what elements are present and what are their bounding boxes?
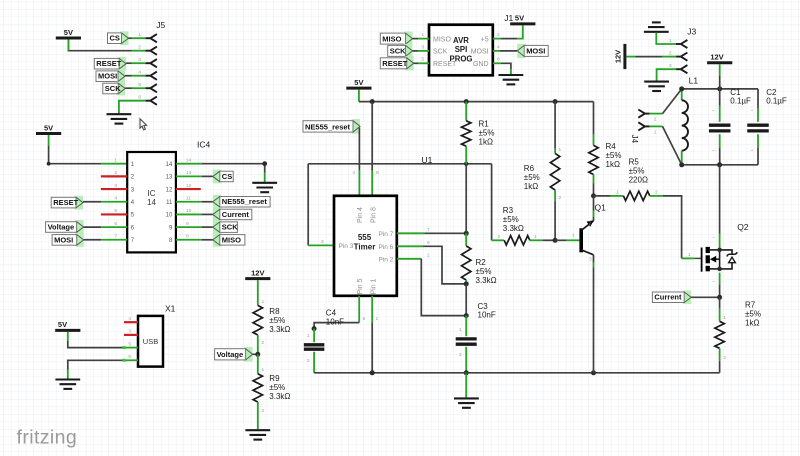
svg-text:2: 2 — [654, 117, 657, 123]
net label SCK @AVR — [388, 44, 413, 58]
svg-text:J5: J5 — [156, 20, 165, 30]
ground (J3 pin1) — [644, 22, 669, 31]
svg-text:C4: C4 — [326, 309, 337, 318]
svg-text:2: 2 — [669, 50, 672, 56]
svg-text:1: 1 — [688, 252, 691, 258]
svg-text:R5: R5 — [629, 158, 640, 167]
IC4 pin1 lead — [101, 163, 127, 165]
svg-text:Pin 6: Pin 6 — [378, 244, 393, 251]
junction Q2 drain / C1 bottom — [717, 162, 722, 167]
svg-text:5: 5 — [421, 57, 424, 63]
svg-text:0.1µF: 0.1µF — [730, 97, 751, 106]
svg-text:R4: R4 — [606, 142, 617, 151]
svg-text:11: 11 — [166, 200, 173, 206]
J5 pin1 lead — [132, 37, 146, 39]
svg-text:fritzing: fritzing — [17, 427, 78, 449]
555 pin name labels — [339, 207, 394, 295]
svg-text:SCK: SCK — [390, 47, 406, 56]
svg-text:6: 6 — [114, 221, 117, 227]
wire 12V to top rail — [719, 64, 721, 76]
power 5V (555) — [346, 78, 371, 88]
IC4 pin7 lead — [101, 239, 127, 241]
svg-text:1: 1 — [262, 367, 265, 373]
wire R1 bottom to junction — [465, 164, 467, 234]
svg-text:1: 1 — [559, 147, 562, 153]
svg-text:12: 12 — [166, 187, 173, 193]
power 5V (IC4) — [36, 123, 61, 133]
svg-text:R1: R1 — [479, 119, 490, 128]
svg-text:3: 3 — [589, 257, 592, 263]
svg-text:SCK: SCK — [105, 84, 121, 93]
J5 pin3 lead — [132, 62, 146, 64]
svg-text:2: 2 — [138, 45, 141, 51]
svg-text:7: 7 — [114, 234, 117, 240]
svg-text:10nF: 10nF — [326, 318, 344, 327]
svg-text:C1: C1 — [730, 88, 741, 97]
junction Q1 / GND rail — [591, 370, 596, 375]
svg-text:5V: 5V — [354, 78, 363, 87]
svg-text:1: 1 — [654, 129, 657, 135]
svg-text:Pin 1: Pin 1 — [371, 278, 378, 294]
AVR pin3 lead — [418, 50, 429, 52]
svg-text:NE555_reset: NE555_reset — [222, 197, 268, 206]
svg-text:14: 14 — [147, 198, 156, 207]
svg-text:R3: R3 — [503, 206, 514, 215]
svg-text:3: 3 — [421, 44, 424, 50]
svg-text:1: 1 — [138, 32, 141, 38]
power 12V (J3) rotated — [614, 44, 625, 69]
junction +5V rail / 555 pin8 — [370, 99, 375, 104]
capacitor C1 — [709, 89, 731, 165]
junction U1 wire / R1 bottom — [464, 162, 468, 166]
junction Current / R7 — [717, 295, 722, 300]
wire SCK to J5 pin5 — [125, 87, 131, 89]
svg-text:C2: C2 — [766, 88, 777, 97]
555 pin6 lead — [397, 245, 423, 247]
svg-text:SPI: SPI — [455, 45, 468, 54]
svg-text:Current: Current — [222, 210, 250, 219]
junction 12V / C1 top — [717, 86, 722, 91]
resistor R2 — [462, 233, 471, 284]
svg-text:SCK: SCK — [222, 223, 238, 232]
svg-text:U1: U1 — [422, 155, 433, 165]
svg-text:3: 3 — [138, 57, 141, 63]
net label MISO @AVR — [380, 32, 412, 46]
svg-text:1: 1 — [534, 234, 537, 240]
svg-text:6: 6 — [138, 95, 141, 101]
junction L1 bottom — [679, 162, 684, 167]
X1 pin numbers — [128, 316, 131, 360]
svg-text:MISO: MISO — [222, 235, 241, 244]
power 5V (J1) — [510, 14, 535, 24]
svg-text:J4: J4 — [630, 135, 639, 144]
svg-text:2: 2 — [497, 234, 500, 240]
AVR pin names — [433, 36, 489, 68]
svg-text:MISO: MISO — [382, 34, 401, 43]
net label CS @IC4 pin13 — [213, 170, 233, 184]
ground stem (C3) — [465, 373, 467, 398]
wire NE555_reset to 555 pin4 — [358, 128, 360, 171]
AVR pin1 lead — [418, 38, 429, 40]
svg-text:R8: R8 — [269, 307, 280, 316]
net label SCK @IC4 pin9 — [213, 220, 238, 234]
svg-text:1kΩ: 1kΩ — [745, 319, 759, 328]
junction R1/R2/pin7 — [464, 231, 469, 236]
IC4 pin3 red stub (unrouted) — [101, 188, 127, 190]
svg-text:±5%: ±5% — [606, 151, 622, 160]
wire R5 to Q2 gate — [663, 196, 682, 259]
svg-text:10: 10 — [186, 208, 192, 214]
power 12V (R8) — [245, 268, 270, 278]
J4 pin1 lead — [650, 125, 663, 127]
wire L1 bottom rail — [682, 164, 758, 166]
wire J3 pin1 to ground — [656, 33, 676, 44]
svg-text:3.3kΩ: 3.3kΩ — [476, 276, 497, 285]
wire 12V to J3 pin2 — [636, 56, 663, 58]
wire 555 pin2 to C3 top — [421, 259, 466, 316]
svg-text:2: 2 — [262, 340, 265, 346]
svg-text:3.3kΩ: 3.3kΩ — [503, 224, 524, 233]
junction R6 / R3 / Q1 base — [553, 238, 558, 243]
svg-text:1: 1 — [616, 190, 619, 196]
junction C3 top — [464, 313, 469, 318]
J5 pin 1 — [146, 34, 157, 42]
wire 5V to X1 pin5 — [67, 332, 69, 341]
svg-text:±5%: ±5% — [745, 310, 761, 319]
Q2 source junction dot — [717, 267, 722, 272]
svg-text:±5%: ±5% — [269, 316, 285, 325]
svg-text:CS: CS — [222, 172, 232, 181]
svg-text:5V: 5V — [64, 28, 73, 37]
AVR pin numbers — [421, 32, 500, 63]
svg-text:12V: 12V — [614, 50, 623, 63]
junction +5V rail / R6 — [553, 99, 558, 104]
resistor R7 — [715, 297, 724, 373]
wire U1 to 555 pin3 — [307, 164, 309, 246]
wire MOSI to J5 pin4 — [125, 75, 132, 77]
junction C4 top — [312, 326, 317, 331]
J5 pin 6 — [146, 97, 157, 105]
wire SCK to AVR pin3 — [413, 50, 419, 52]
svg-text:NE555_reset: NE555_reset — [305, 122, 351, 131]
junction R2 bottom / pin6 / C3 — [464, 281, 469, 286]
svg-text:Pin 7: Pin 7 — [378, 231, 393, 238]
12V lead to J3 pin2 — [626, 56, 635, 58]
svg-text:~: ~ — [750, 109, 753, 114]
svg-text:2: 2 — [307, 358, 310, 364]
svg-text:5: 5 — [363, 316, 366, 322]
IC4 pin5 red stub (unrouted) — [101, 213, 127, 215]
555 pin7 lead — [397, 232, 425, 234]
svg-text:9: 9 — [186, 221, 189, 227]
svg-text:8: 8 — [186, 234, 189, 240]
svg-text:USB: USB — [143, 337, 158, 346]
net label Voltage @IC4 pin6 — [46, 220, 84, 234]
svg-text:Q1: Q1 — [595, 203, 607, 213]
svg-text:Pin 8: Pin 8 — [371, 207, 378, 223]
wire RESET to IC4 pin4 — [83, 201, 101, 203]
net label MOSI @AVR right — [517, 44, 548, 58]
svg-text:±5%: ±5% — [503, 215, 519, 224]
wire IC4 pin11 to NE555_reset — [202, 201, 213, 203]
net label RESET @IC4 pin4 — [51, 196, 83, 210]
wire J3 pin3 to ground — [657, 69, 677, 80]
svg-text:AVR: AVR — [453, 36, 469, 45]
555 timer U1 body — [334, 196, 397, 296]
J4 pin 1 — [638, 122, 649, 130]
555 pin8 lead — [371, 170, 373, 196]
svg-text:L1: L1 — [689, 76, 699, 86]
svg-text:RESET: RESET — [382, 59, 407, 68]
svg-text:12V: 12V — [710, 53, 723, 62]
wire X1 pin6 to ground — [68, 360, 124, 369]
J3 pin 2 — [676, 53, 687, 61]
junction pin1 / GND rail — [370, 370, 375, 375]
Q2 gate lead — [682, 257, 695, 259]
capacitor C4 — [304, 329, 325, 373]
ground (IC4 pin14) — [252, 183, 277, 192]
J4 pin2 lead — [650, 113, 663, 115]
svg-text:R7: R7 — [745, 301, 756, 310]
svg-text:5V: 5V — [58, 320, 67, 329]
svg-text:1: 1 — [572, 233, 575, 239]
svg-text:Pin 2: Pin 2 — [378, 256, 393, 263]
wire junction to Q1 base — [555, 239, 566, 241]
J5 pin 5 — [146, 84, 157, 92]
svg-text:+5: +5 — [481, 36, 489, 43]
net label MOSI @IC4 pin7 — [52, 233, 84, 247]
svg-text:Q2: Q2 — [737, 222, 749, 232]
IC4 outer pin numbers — [114, 158, 191, 240]
svg-text:RESET: RESET — [53, 198, 78, 207]
svg-text:3: 3 — [669, 63, 672, 69]
svg-text:R9: R9 — [269, 374, 280, 383]
svg-text:13: 13 — [166, 175, 173, 181]
wire 5V to IC4 pin1 — [48, 135, 50, 146]
svg-text:10nF: 10nF — [478, 311, 496, 320]
svg-text:555: 555 — [358, 233, 372, 242]
transistor Q1 — [572, 196, 594, 268]
resistor R1 — [462, 102, 471, 164]
J5 pin2 lead — [132, 50, 146, 52]
wire R2 bottom to C3 top — [465, 284, 467, 316]
wire Current to node — [691, 296, 719, 298]
svg-text:R6: R6 — [524, 164, 535, 173]
Q1 base lead — [566, 239, 580, 241]
net label Current @Q2 — [652, 290, 691, 304]
svg-text:11: 11 — [186, 196, 191, 202]
mouse cursor — [140, 119, 147, 130]
wire node U1 (pin3/R3/R1) — [308, 163, 491, 165]
svg-text:14: 14 — [166, 162, 173, 168]
ground (bottom rail) — [454, 398, 479, 407]
svg-text:~: ~ — [712, 280, 715, 285]
svg-text:Pin 3: Pin 3 — [339, 243, 354, 250]
wire GND bottom rail — [314, 372, 719, 374]
svg-text:Voltage: Voltage — [48, 223, 75, 232]
wire AVR +5 to 5V — [501, 38, 517, 40]
net label MOSI @J5 — [96, 69, 125, 83]
junction R4 / R5 / Q1 — [591, 193, 596, 198]
wire CS to J5 pin1 — [129, 37, 132, 39]
junction L1 top — [679, 86, 684, 91]
wire AVR MOSI to label — [500, 50, 517, 52]
svg-text:SCK: SCK — [433, 49, 448, 56]
svg-text:1: 1 — [376, 316, 379, 322]
resistor R9 — [253, 354, 262, 429]
IC4 pin13 lead — [176, 175, 202, 177]
connector X1 USB body — [138, 316, 163, 367]
net label MISO @IC4 pin8 — [213, 233, 245, 247]
net label RESET @AVR — [380, 56, 413, 70]
svg-text:Pin 5: Pin 5 — [357, 278, 364, 294]
J3 pin 1 — [676, 40, 687, 48]
svg-text:MOSI: MOSI — [54, 235, 73, 244]
svg-text:13: 13 — [186, 170, 192, 176]
svg-text:Voltage: Voltage — [217, 350, 244, 359]
wire 5V to +5V rail — [358, 90, 360, 102]
svg-text:1: 1 — [669, 38, 672, 44]
J5 pin 3 — [146, 59, 157, 67]
X1 pin4 red stub (unrouted) — [124, 321, 138, 323]
wire 555 pin7 to R2 top — [425, 232, 467, 234]
svg-text:~: ~ — [712, 109, 715, 114]
svg-text:1: 1 — [262, 299, 265, 305]
wire Voltage to divider — [253, 353, 258, 355]
svg-text:RESET: RESET — [96, 59, 121, 68]
svg-text:5V: 5V — [515, 14, 524, 23]
net label NE555_reset @555 — [303, 119, 360, 134]
svg-text:MOSI: MOSI — [98, 72, 117, 81]
wire IC4 pin9 to SCK — [202, 226, 213, 228]
svg-text:±5%: ±5% — [524, 173, 540, 182]
X1 pin3 red stub (unrouted) — [124, 334, 138, 336]
svg-text:±5%: ±5% — [629, 167, 645, 176]
svg-text:J1: J1 — [504, 13, 513, 23]
wire 555 pin5 to C4 — [314, 323, 359, 329]
IC4 pin11 lead — [176, 201, 202, 203]
svg-text:~: ~ — [750, 149, 753, 154]
ground stem (X1) — [67, 370, 69, 379]
resistor R3 — [492, 236, 555, 245]
wire Q1 collector to GND rail — [593, 268, 595, 373]
resistor R5 — [594, 191, 663, 200]
power 5V (top-left) — [56, 28, 81, 38]
ground stem (IC4 pin14) — [264, 173, 266, 183]
svg-text:6: 6 — [128, 354, 131, 360]
svg-text:RESET: RESET — [433, 61, 457, 68]
wire AVR GND to ground — [501, 63, 511, 69]
IC4 pin10 lead — [176, 213, 202, 215]
5V lead to wire — [517, 25, 523, 38]
svg-text:1: 1 — [114, 158, 117, 164]
Q2 drain junction dot — [717, 248, 722, 253]
wire Q2 source to Current node — [719, 284, 721, 297]
Q2 source lead — [719, 273, 721, 285]
J3 pin 3 — [676, 65, 687, 73]
svg-text:Timer: Timer — [354, 242, 376, 251]
ground stem (AVR) — [510, 69, 512, 74]
555 pin1 lead — [371, 296, 373, 323]
wire +5V rail — [359, 101, 594, 103]
svg-text:C3: C3 — [478, 302, 489, 311]
Q2 drain lead — [719, 234, 721, 250]
svg-text:MISO: MISO — [433, 36, 451, 43]
wire L1 top rail — [682, 88, 758, 90]
555 pin2 lead — [397, 258, 422, 260]
555 pin5 lead — [358, 296, 360, 323]
IC4 pin9 lead — [176, 226, 202, 228]
svg-text:2: 2 — [262, 408, 265, 414]
wire 555 pin1 to GND rail — [371, 323, 373, 373]
ground (X1) — [55, 380, 80, 389]
svg-text:3.3kΩ: 3.3kΩ — [269, 325, 290, 334]
svg-text:J3: J3 — [687, 27, 696, 37]
svg-text:MOSI: MOSI — [526, 47, 545, 56]
AVR pin6 lead — [493, 62, 501, 64]
svg-text:GND: GND — [473, 61, 489, 68]
svg-text:~: ~ — [712, 236, 715, 241]
J5 pin 4 — [146, 72, 157, 80]
wire +5V rail to 555 pin8 — [371, 102, 373, 170]
net label CS @J5 — [108, 31, 129, 45]
svg-text:4: 4 — [114, 196, 117, 202]
wire IC4 pin13 to CS — [202, 175, 213, 177]
svg-text:Current: Current — [654, 293, 682, 302]
wire C1 junction to Q2 drain — [719, 165, 721, 234]
transistor Q2 (MOSFET) — [702, 247, 738, 272]
ground (J5 pin6) — [107, 114, 132, 123]
IC IC4 body — [127, 152, 176, 252]
wire IC4 pin8 to MISO — [202, 239, 213, 241]
J5 pin4 lead — [132, 75, 146, 77]
svg-text:R2: R2 — [476, 258, 487, 267]
J4 pin 2 — [638, 110, 649, 118]
wire 555 pin6 to R2 bottom — [423, 246, 466, 284]
svg-text:1kΩ: 1kΩ — [524, 182, 538, 191]
svg-text:1: 1 — [421, 32, 424, 38]
svg-text:2: 2 — [559, 195, 562, 201]
ground (AVR GND) — [499, 75, 524, 84]
svg-text:2: 2 — [723, 355, 726, 361]
svg-text:4: 4 — [352, 170, 355, 176]
wire IC4 pin14 to ground — [202, 164, 265, 173]
svg-text:IC4: IC4 — [197, 140, 211, 150]
svg-text:6: 6 — [427, 240, 430, 246]
svg-text:6: 6 — [497, 57, 500, 63]
svg-text:5V: 5V — [44, 123, 53, 132]
resistor R4 — [589, 134, 598, 196]
svg-text:1kΩ: 1kΩ — [479, 137, 493, 146]
svg-text:1: 1 — [307, 333, 310, 339]
wire MISO to AVR pin1 — [413, 38, 419, 40]
wire MOSI to IC4 pin7 — [84, 239, 102, 241]
svg-text:2: 2 — [459, 352, 462, 358]
junction C3 / GND rail — [464, 370, 469, 375]
capacitor C3 — [456, 316, 477, 373]
AVR SPI PROG body — [429, 25, 493, 76]
svg-text:2: 2 — [427, 253, 430, 259]
J5 pin 2 — [146, 47, 157, 55]
svg-text:2: 2 — [655, 190, 658, 196]
wire Voltage to IC4 pin6 — [84, 226, 102, 228]
inductor L1 — [682, 89, 688, 165]
555 pin4 lead — [358, 170, 360, 196]
svg-text:8: 8 — [376, 170, 379, 176]
power 12V (C1) — [707, 53, 732, 63]
svg-text:7: 7 — [427, 227, 430, 233]
IC4 pin8 lead — [176, 239, 202, 241]
